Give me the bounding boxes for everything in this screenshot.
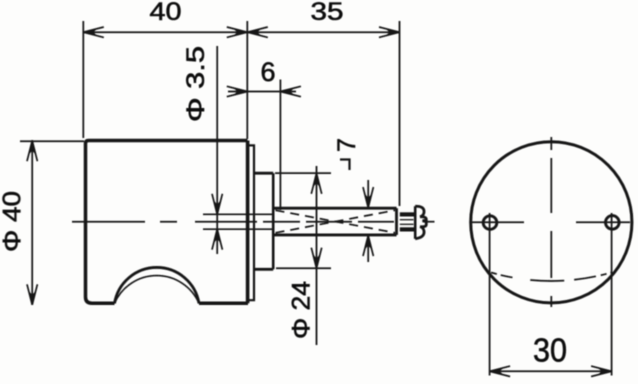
svg-text:Φ 24: Φ 24 (288, 281, 316, 339)
svg-text:35: 35 (311, 0, 344, 26)
svg-text:6: 6 (261, 57, 276, 87)
svg-text:Φ 40: Φ 40 (0, 191, 26, 252)
svg-text:40: 40 (150, 0, 182, 26)
svg-text:7: 7 (333, 138, 361, 152)
svg-text:Φ 3.5: Φ 3.5 (182, 46, 210, 122)
svg-text:30: 30 (533, 332, 567, 369)
